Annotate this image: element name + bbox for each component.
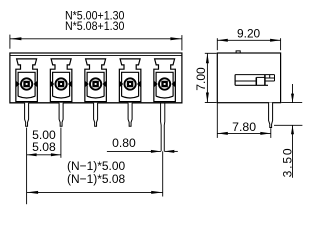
P5 screw head ring <box>159 78 170 89</box>
pitch dim arrowhead left <box>27 153 37 156</box>
P1 solder pin <box>25 103 29 127</box>
svg-text:7.80: 7.80 <box>232 120 256 134</box>
svg-text:0.80: 0.80 <box>112 136 136 150</box>
P1 screw head ring <box>21 78 32 89</box>
top dimension extension line right <box>181 35 183 50</box>
bottom dim arrowhead right <box>151 191 163 194</box>
top dimension line <box>10 38 182 40</box>
7.80 ext line left <box>216 103 218 138</box>
pin1 extension line <box>26 128 28 205</box>
7.80 dimension line <box>217 132 270 134</box>
terminal block body outline (side view) <box>217 53 280 103</box>
svg-text:7.00: 7.00 <box>194 67 208 91</box>
P3 clamp side wing right <box>102 81 106 88</box>
P2 screw square recess <box>58 81 65 88</box>
terminal position P1: housing tower profile <box>16 59 37 102</box>
P4 clamp side wing right <box>137 81 141 88</box>
P4 screw square hole <box>129 83 131 85</box>
P3 clamp cage bottom saddle <box>87 96 104 98</box>
P2 clamp cage inner outline <box>53 72 70 96</box>
P3 screw head ring <box>90 78 101 89</box>
terminal position P4: housing tower profile <box>119 59 141 102</box>
P5 clamp cage bottom saddle <box>156 96 173 98</box>
top dimension arrowhead right <box>170 37 182 40</box>
P1 screw square recess <box>23 81 30 88</box>
P2 clamp side wing right <box>68 81 72 88</box>
7.00 dimension line <box>206 53 208 102</box>
P5 clamp cage inner outline <box>156 72 173 96</box>
svg-text:9.20: 9.20 <box>237 26 260 40</box>
top bump <box>236 51 240 53</box>
pitch dim arrowhead right <box>51 153 61 156</box>
terminal position P5: housing tower profile <box>154 59 176 102</box>
P1 clamp cage bottom saddle <box>18 96 35 98</box>
3.50 dim line upper segment w/ down arrow <box>292 84 294 103</box>
P5 solder pin (extended for 0.80 dim) <box>161 103 165 152</box>
7.00 ext line top <box>205 52 217 54</box>
P2 clamp side wing left <box>51 81 55 88</box>
P1 clamp side wing right <box>33 81 37 88</box>
svg-text:N*5.08+1.30: N*5.08+1.30 <box>65 20 125 33</box>
pitch dimension line 5.00/5.08 <box>27 154 61 156</box>
P5 clamp side wing left <box>154 81 158 88</box>
svg-text:(N−1)*5.08: (N−1)*5.08 <box>67 172 125 186</box>
3.50 ext line top (body bottom) <box>281 102 302 104</box>
P4 clamp cage inner outline <box>122 72 139 96</box>
P5 screw square hole <box>164 83 166 85</box>
svg-text:5.08: 5.08 <box>32 140 56 154</box>
P2 screw square hole <box>60 83 62 85</box>
terminal position P3: housing tower profile <box>85 59 107 102</box>
P4 screw square recess <box>127 81 134 88</box>
terminal block body outline (front view) <box>10 53 182 103</box>
9.20 ext line left <box>216 38 218 50</box>
7.00 ext line bottom <box>205 102 217 104</box>
9.20 dimension line <box>217 39 280 41</box>
P5 pin centerline extension <box>162 151 164 196</box>
3.50 dim line lower segment w/ up arrow <box>292 125 294 178</box>
P2 clamp cage bottom saddle <box>53 96 70 98</box>
P4 screw head ring <box>124 78 135 89</box>
P3 solder pin <box>94 103 98 127</box>
P4 clamp side wing left <box>120 81 124 88</box>
side view solder pin <box>269 103 273 128</box>
7.80 ext line right <box>270 128 272 138</box>
top dimension extension line left <box>9 35 11 49</box>
P1 screw square hole <box>26 83 28 85</box>
P4 clamp cage bottom saddle <box>122 96 139 98</box>
3.50 ext line bottom (pin tip) <box>274 124 302 126</box>
P1 clamp side wing left <box>16 81 20 88</box>
terminal position P2: housing tower profile <box>50 59 72 102</box>
P5 screw square recess <box>161 81 168 88</box>
P3 clamp cage inner outline <box>87 72 104 96</box>
bottom dim arrowhead left <box>27 191 38 194</box>
0.80 leader line left with arrow <box>107 150 161 152</box>
wire clamp mechanism (side cutaway) <box>235 75 274 86</box>
body top inner edge line <box>10 55 182 57</box>
P3 screw square recess <box>92 81 99 88</box>
0.80 leader line right with arrow <box>164 150 178 152</box>
P2 screw head ring <box>55 78 66 89</box>
P4 solder pin <box>128 103 132 127</box>
top dimension arrowhead left <box>10 37 22 40</box>
9.20 ext line right <box>280 38 282 50</box>
P3 clamp side wing left <box>85 81 89 88</box>
P1 clamp cage inner outline <box>18 72 35 96</box>
P5 clamp side wing right <box>171 81 175 88</box>
bottom dimension line (N-1) <box>27 191 163 193</box>
pin2 extension line <box>60 128 62 158</box>
P3 screw square hole <box>95 83 97 85</box>
P2 solder pin <box>59 103 63 127</box>
